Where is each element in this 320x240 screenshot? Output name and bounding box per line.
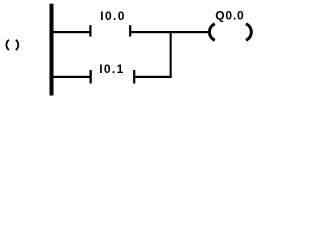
wire rung1 left segment [53, 31, 90, 33]
coil Q0.0 right paren [246, 24, 251, 41]
wire rung2 right segment [135, 76, 172, 78]
power rail [50, 4, 54, 96]
coil Q0.0 left paren [209, 24, 214, 41]
wire rung1 right segment [131, 31, 208, 33]
network marker ( ) [6, 40, 18, 50]
contact I0.1 right bar [133, 70, 135, 84]
wire branch vertical junction [170, 31, 172, 78]
wire rung2 left segment [53, 76, 90, 78]
contact I0.0 right bar [129, 25, 131, 36]
svg-text:I0.1: I0.1 [99, 62, 124, 76]
svg-text:I0.0: I0.0 [100, 9, 125, 23]
contact I0.1 left bar [90, 70, 92, 84]
svg-text:Q0.0: Q0.0 [215, 8, 244, 22]
contact I0.0 left bar [89, 25, 91, 36]
